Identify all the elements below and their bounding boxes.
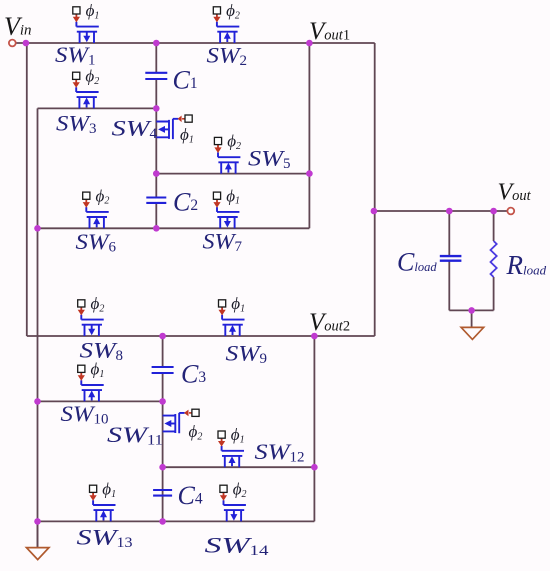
- svg-text:Vout2: Vout2: [309, 309, 350, 336]
- svg-text:ϕ2: ϕ2: [233, 479, 247, 499]
- svg-text:SW6: SW6: [76, 229, 117, 256]
- svg-text:Vout: Vout: [498, 179, 532, 205]
- svg-text:Cload: Cload: [397, 248, 437, 277]
- svg-text:SW7: SW7: [203, 229, 243, 256]
- svg-text:ϕ1: ϕ1: [180, 125, 194, 145]
- svg-text:Rload: Rload: [506, 250, 547, 280]
- svg-text:SW12: SW12: [255, 439, 305, 466]
- svg-text:SW8: SW8: [80, 338, 124, 365]
- svg-text:ϕ2: ϕ2: [96, 186, 110, 206]
- svg-text:SW5: SW5: [248, 146, 291, 173]
- svg-text:C4: C4: [178, 481, 203, 510]
- svg-text:Vin: Vin: [4, 12, 32, 41]
- svg-text:ϕ2: ϕ2: [85, 66, 99, 86]
- svg-text:SW4: SW4: [112, 116, 158, 143]
- svg-text:SW14: SW14: [205, 533, 270, 560]
- svg-text:ϕ1: ϕ1: [102, 479, 116, 499]
- svg-text:SW11: SW11: [107, 422, 163, 449]
- svg-text:C1: C1: [173, 66, 198, 95]
- svg-text:C3: C3: [181, 360, 206, 389]
- svg-text:C2: C2: [173, 188, 198, 217]
- svg-text:SW9: SW9: [226, 341, 268, 368]
- svg-text:ϕ2: ϕ2: [226, 1, 240, 21]
- svg-text:ϕ1: ϕ1: [226, 186, 240, 206]
- svg-text:ϕ1: ϕ1: [231, 294, 245, 314]
- svg-text:ϕ2: ϕ2: [189, 422, 203, 442]
- svg-text:SW2: SW2: [207, 43, 248, 69]
- svg-text:ϕ2: ϕ2: [91, 294, 105, 314]
- svg-text:SW10: SW10: [61, 401, 109, 428]
- svg-text:ϕ2: ϕ2: [227, 132, 241, 152]
- svg-text:ϕ1: ϕ1: [86, 1, 100, 21]
- svg-text:SW3: SW3: [56, 111, 97, 138]
- svg-text:ϕ1: ϕ1: [231, 425, 245, 445]
- svg-text:Vout1: Vout1: [309, 18, 350, 45]
- svg-text:SW13: SW13: [77, 524, 133, 551]
- svg-text:SW1: SW1: [55, 42, 96, 68]
